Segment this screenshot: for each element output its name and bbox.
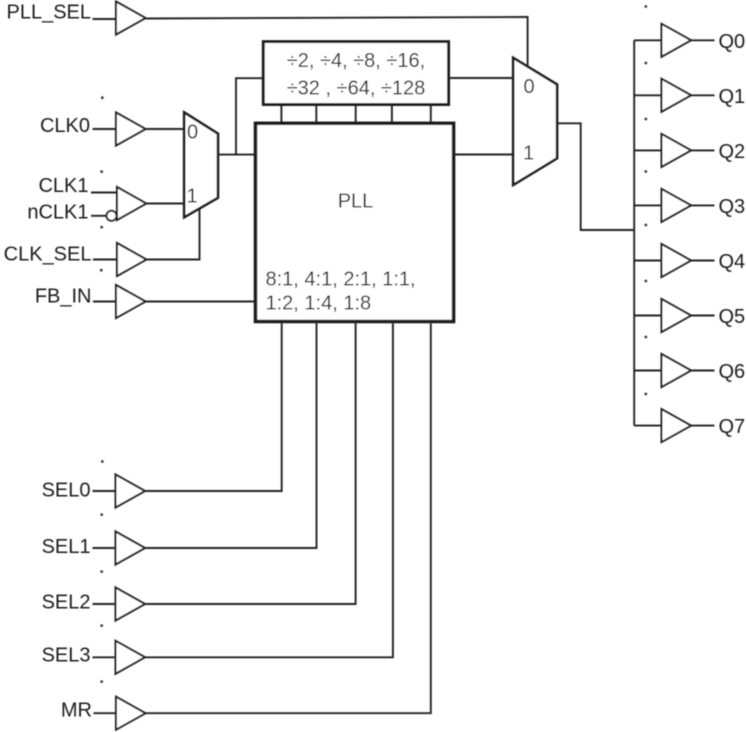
buffer SEL0 <box>116 475 146 508</box>
buffer Q3 <box>662 189 692 222</box>
wire divider to PLL stub 2 <box>315 105 317 124</box>
buffer Q4 <box>662 244 692 277</box>
svg-text:SEL3: SEL3 <box>42 645 91 667</box>
buffer Q0 <box>662 24 692 57</box>
svg-text:1: 1 <box>186 186 197 208</box>
buffer CLK_SEL <box>117 243 146 276</box>
wire mux M1 output to PLL input <box>218 154 256 156</box>
mux M2 output select trapezoid <box>513 58 557 185</box>
buffer Q6 <box>662 354 692 387</box>
svg-text:Q1: Q1 <box>719 86 746 108</box>
wire PLL_SEL label to buffer <box>93 18 117 20</box>
wire CLK0 label to buffer <box>93 128 117 130</box>
wire divider to PLL stub 3 <box>355 105 357 124</box>
wire mux M2 output to Q bus <box>557 123 634 230</box>
wire CLK1 buffer to mux M1 input 1 <box>146 203 184 205</box>
buffer SEL1 <box>116 532 146 565</box>
svg-text:CLK1: CLK1 <box>38 175 88 197</box>
dot above CLK0 <box>101 96 104 99</box>
svg-text:÷32 , ÷64, ÷128: ÷32 , ÷64, ÷128 <box>287 78 426 100</box>
svg-text:FB_IN: FB_IN <box>35 286 92 308</box>
wire bus to buffer Q0 <box>634 39 661 41</box>
svg-text:Q3: Q3 <box>719 196 746 218</box>
svg-text:Q4: Q4 <box>719 251 746 273</box>
svg-text:SEL0: SEL0 <box>42 480 91 502</box>
inverting bubble nCLK1 <box>107 211 117 221</box>
wire SEL1 label to buffer <box>93 547 116 549</box>
wire buffer Q3 to label <box>691 204 715 206</box>
wire PLL output to mux M2 input 1 <box>454 154 514 156</box>
wire buffer Q4 to label <box>691 260 715 262</box>
buffer MR <box>116 697 146 730</box>
svg-text:0: 0 <box>523 76 534 98</box>
Q bus vertical <box>633 40 635 425</box>
dot above SEL0 <box>101 460 104 463</box>
mux M1 input select trapezoid <box>184 112 218 217</box>
svg-text:Q5: Q5 <box>719 306 746 328</box>
wire CLK_SEL buffer to mux M1 select <box>146 208 199 259</box>
dot above CLK_SEL <box>100 226 103 229</box>
svg-text:Q0: Q0 <box>719 31 746 53</box>
wire buffer Q2 to label <box>691 149 715 151</box>
wire bus to buffer Q6 <box>634 370 661 372</box>
svg-text:Q2: Q2 <box>719 141 746 163</box>
svg-text:CLK0: CLK0 <box>40 115 90 137</box>
wire FB_IN buffer to PLL feedback input <box>146 301 256 303</box>
dot above CLK1 <box>100 170 103 173</box>
wire SEL2 label to buffer <box>93 603 116 605</box>
dot above Q7 <box>644 393 647 396</box>
wire divider to PLL stub 4 <box>391 105 393 124</box>
wire SEL3 buffer to PLL <box>145 323 393 657</box>
svg-text:SEL2: SEL2 <box>42 592 91 614</box>
dot above Q4 <box>644 224 647 227</box>
svg-text:nCLK1: nCLK1 <box>27 202 88 224</box>
wire buffer Q5 to label <box>691 315 715 317</box>
wire bus to buffer Q4 <box>634 260 661 262</box>
dot above Q2 <box>644 118 647 121</box>
svg-text:÷2, ÷4, ÷8, ÷16,: ÷2, ÷4, ÷8, ÷16, <box>287 50 425 72</box>
wire CLK_SEL label to buffer <box>93 259 117 261</box>
wire SEL2 buffer to PLL <box>145 323 356 604</box>
wire bus to buffer Q7 <box>634 425 661 427</box>
wire divider output to mux M2 input 0 <box>449 77 514 79</box>
svg-text:8:1, 4:1, 2:1, 1:1,: 8:1, 4:1, 2:1, 1:1, <box>266 269 416 291</box>
wire divider to PLL stub 5 <box>430 105 432 124</box>
wire buffer Q0 to label <box>691 39 715 41</box>
dot above SEL3 <box>100 624 103 627</box>
svg-text:CLK_SEL: CLK_SEL <box>4 244 92 266</box>
svg-text:SEL1: SEL1 <box>42 536 91 558</box>
svg-text:Q7: Q7 <box>719 416 746 438</box>
svg-text:0: 0 <box>187 122 198 144</box>
wire nCLK1 label to bubble <box>91 215 106 217</box>
wire SEL0 label to buffer <box>93 490 116 492</box>
svg-text:PLL: PLL <box>338 191 374 213</box>
buffer CLK1 <box>117 187 146 220</box>
dot above SEL1 <box>100 513 103 516</box>
buffer Q5 <box>662 299 692 332</box>
dot above Q6 <box>644 336 647 339</box>
svg-text:1: 1 <box>523 143 534 165</box>
wire CLK0 buffer to mux M1 input 0 <box>146 128 185 130</box>
svg-text:MR: MR <box>61 700 92 722</box>
wire junction up to divider input <box>236 78 263 154</box>
svg-text:1:2, 1:4, 1:8: 1:2, 1:4, 1:8 <box>266 293 372 315</box>
wire buffer Q6 to label <box>691 370 715 372</box>
svg-text:PLL_SEL: PLL_SEL <box>6 2 91 24</box>
wire bus to buffer Q5 <box>634 315 661 317</box>
buffer Q2 <box>662 134 692 167</box>
dot above MR <box>100 680 103 683</box>
buffer Q1 <box>662 79 692 112</box>
wire SEL1 buffer to PLL <box>145 323 317 548</box>
buffer CLK0 <box>116 113 146 146</box>
buffer SEL2 <box>116 588 146 621</box>
wire MR label to buffer <box>94 712 117 714</box>
wire bus to buffer Q1 <box>634 94 661 96</box>
dot above Q5 <box>644 280 647 283</box>
wire FB_IN label to buffer <box>93 301 116 303</box>
dot above Q0 <box>644 5 647 8</box>
dot above FB_IN <box>100 269 103 272</box>
wire bus to buffer Q2 <box>634 149 661 151</box>
wire MR buffer to PLL <box>146 323 431 713</box>
dot above SEL2 <box>100 570 103 573</box>
dot above Q3 <box>644 170 647 173</box>
wire PLL_SEL buffer to mux M2 select <box>146 17 528 67</box>
dot above Q1 <box>644 62 647 65</box>
wire bus to buffer Q3 <box>634 204 661 206</box>
buffer FB_IN <box>116 285 146 318</box>
buffer SEL3 <box>116 641 146 674</box>
PLL box <box>256 123 454 321</box>
wire buffer Q7 to label <box>691 425 715 427</box>
svg-text:Q6: Q6 <box>719 361 746 383</box>
wire SEL3 label to buffer <box>93 656 116 658</box>
wire SEL0 buffer to PLL <box>145 323 282 491</box>
buffer PLL_SEL <box>116 2 146 35</box>
wire divider to PLL stub 1 <box>280 105 282 124</box>
buffer Q7 <box>662 409 692 442</box>
wire CLK1 label to buffer <box>91 192 117 194</box>
divider box <box>263 42 448 105</box>
wire buffer Q1 to label <box>691 94 715 96</box>
